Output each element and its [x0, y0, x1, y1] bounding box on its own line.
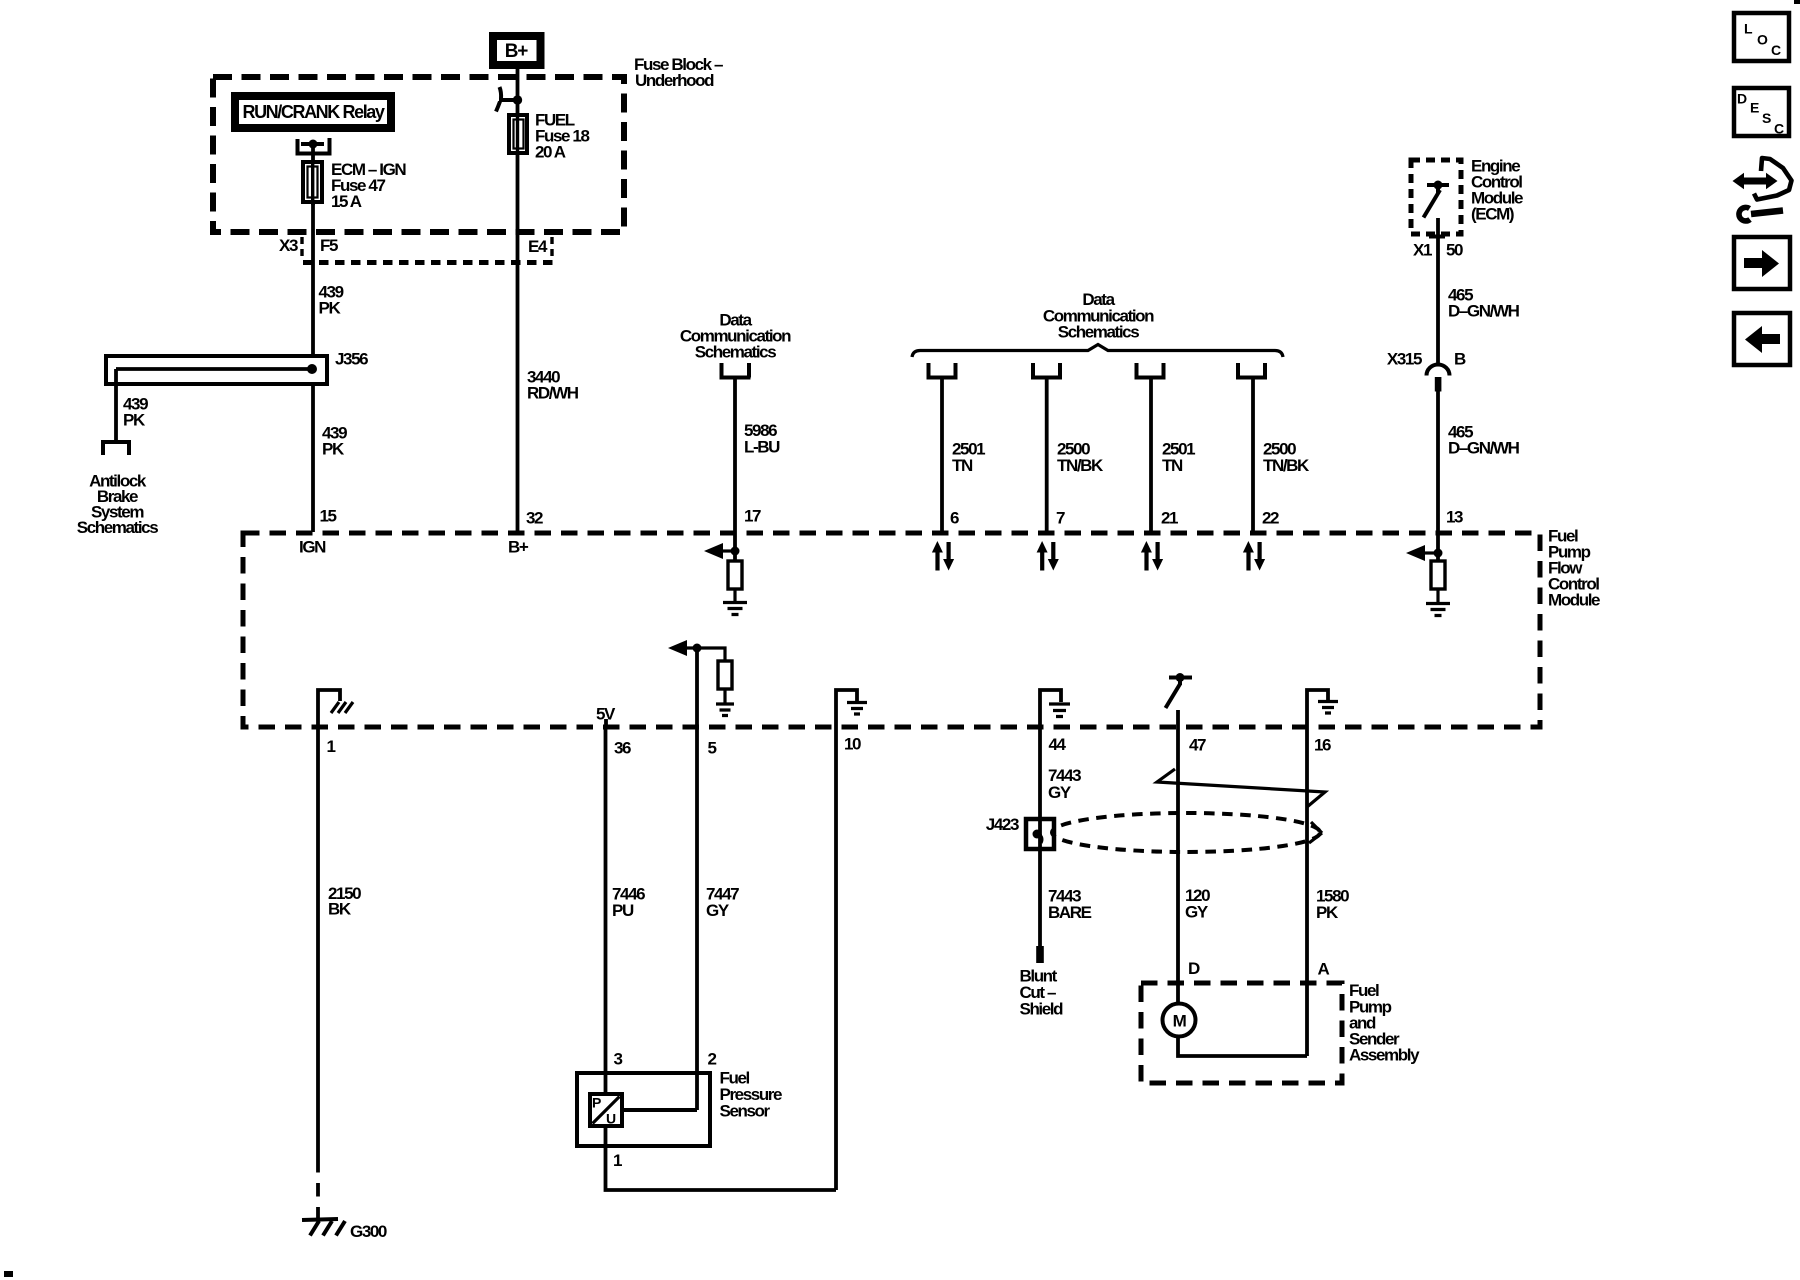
svg-text:TN/BK: TN/BK: [1263, 456, 1310, 475]
svg-text:Schematics: Schematics: [1058, 322, 1139, 341]
svg-text:GY: GY: [1048, 783, 1072, 802]
wire 120 GY from pin 47 to pump pin D: [1178, 727, 1210, 1005]
svg-text:Assembly: Assembly: [1349, 1046, 1420, 1065]
svg-text:15: 15: [320, 507, 337, 526]
title Data Communication Schematics (right): [1043, 290, 1154, 342]
internal termination resistor at pin 17: [704, 532, 747, 615]
svg-text:Schematics: Schematics: [695, 342, 776, 361]
svg-text:(ECM): (ECM): [1471, 204, 1514, 223]
splice pack J356: [106, 350, 368, 385]
svg-text:TN: TN: [952, 456, 973, 475]
svg-text:47: 47: [1189, 735, 1206, 754]
svg-text:32: 32: [526, 509, 543, 528]
svg-text:E: E: [1750, 100, 1759, 116]
icon forward arrow button: [1734, 237, 1790, 289]
svg-text:10: 10: [844, 734, 861, 753]
B+ power feed box: [493, 36, 541, 65]
module internal ground pin 16: [1307, 690, 1338, 754]
off-page fork wire 2500 pin 22: [1236, 363, 1310, 532]
wire sensor pin 1 return to pin 10: [606, 727, 837, 1190]
in-line connector X315 pin B: [1387, 349, 1466, 391]
svg-text:20 A: 20 A: [535, 143, 566, 162]
module internal ground pin 44: [1040, 690, 1070, 754]
svg-text:B+: B+: [505, 41, 529, 62]
svg-text:L-BU: L-BU: [744, 437, 780, 456]
svg-text:RUN/CRANK Relay: RUN/CRANK Relay: [242, 102, 384, 122]
wire 439 PK from fuse 47 to X3 connector: [311, 202, 315, 356]
ECM connector X1 pin 50: [1413, 218, 1463, 366]
icon back arrow button: [1734, 313, 1790, 365]
svg-text:M: M: [1173, 1012, 1187, 1031]
svg-text:B: B: [1454, 349, 1466, 368]
connector row X3 / F5 / E4: [279, 236, 553, 263]
wire 439 PK from J356 to module pin 15: [299, 384, 347, 557]
wire 439 PK branch to ABS: [116, 369, 148, 441]
svg-text:Module: Module: [1548, 590, 1600, 609]
wire B+ from battery to fuse 18: [516, 69, 520, 115]
fuel pressure sensor box: [577, 1068, 782, 1146]
svg-text:A: A: [1318, 959, 1330, 978]
brace over data communication wires: [912, 345, 1283, 358]
svg-text:16: 16: [1314, 735, 1331, 754]
svg-text:J356: J356: [335, 350, 368, 369]
svg-text:L: L: [1744, 21, 1753, 37]
serial data arrows pin 7: [1037, 541, 1059, 571]
svg-text:TN/BK: TN/BK: [1057, 456, 1104, 475]
fuse F47 ECM-IGN 15A: [303, 160, 406, 211]
engine control module ECM dashed box: [1411, 156, 1523, 234]
svg-text:Underhood: Underhood: [635, 71, 714, 90]
internal termination resistor at pin 13: [1406, 532, 1450, 616]
wire 2150 BK from pin 1 to G300: [318, 727, 361, 1220]
off-page fork wire 2501 pin 6: [927, 363, 986, 532]
twisted leads symbol: [1157, 769, 1325, 807]
svg-text:PK: PK: [322, 440, 345, 459]
off-page fork to data communication (wire 5986): [720, 363, 751, 378]
svg-text:C: C: [1771, 42, 1781, 58]
svg-text:13: 13: [1446, 508, 1463, 527]
svg-text:1: 1: [327, 737, 336, 756]
svg-text:BARE: BARE: [1048, 903, 1092, 922]
wire 7446 PU from pin 36 to sensor pin 3: [606, 727, 646, 1094]
off-page fork wire 2500 pin 7: [1031, 363, 1104, 532]
splice J423: [986, 815, 1054, 849]
serial data arrows pin 22: [1243, 541, 1265, 571]
serial data arrows pin 21: [1141, 541, 1163, 571]
svg-text:BK: BK: [328, 900, 352, 919]
svg-text:22: 22: [1262, 508, 1279, 527]
fuel pump and sender assembly dashed box: [1141, 981, 1420, 1083]
wire 439 PK label above J356: [319, 283, 344, 318]
off-page fork to Antilock Brake System Schematics: [77, 442, 158, 537]
svg-text:50: 50: [1446, 240, 1463, 259]
svg-text:B+: B+: [508, 538, 529, 557]
svg-text:PK: PK: [123, 411, 146, 430]
svg-text:J423: J423: [986, 815, 1019, 834]
svg-text:D: D: [1188, 959, 1200, 978]
module internal 5V supply pin 36: [596, 704, 631, 757]
svg-text:X315: X315: [1387, 349, 1422, 368]
fuel pump motor M: [1163, 1004, 1308, 1057]
svg-text:U: U: [606, 1111, 616, 1127]
icon DESC button: [1734, 88, 1789, 137]
svg-text:P: P: [592, 1095, 601, 1111]
serial data arrows pin 6: [932, 541, 954, 571]
svg-text:F5: F5: [320, 236, 338, 255]
svg-text:PK: PK: [319, 299, 342, 318]
relay output terminal bracket: [296, 138, 332, 162]
wire 3440 RD/WH from fuse 18 to module pin 32: [508, 153, 579, 557]
fuse F18 FUEL 20A: [509, 111, 589, 162]
svg-text:Schematics: Schematics: [77, 518, 158, 537]
wire 465 D-GN/WH to module pin 13: [1438, 391, 1520, 532]
wire 7447 GY from pin 5 to sensor pin 2: [697, 727, 739, 1110]
svg-text:PK: PK: [1316, 903, 1339, 922]
svg-text:G300: G300: [350, 1222, 387, 1241]
svg-text:36: 36: [614, 738, 631, 757]
svg-text:D–GN/WH: D–GN/WH: [1448, 301, 1520, 320]
svg-text:3: 3: [614, 1049, 623, 1068]
wire 1580 PK from pin 16 to pump pin A: [1307, 727, 1349, 1056]
svg-text:TN: TN: [1162, 456, 1183, 475]
ground G300: [302, 1219, 387, 1241]
icon LOC button: [1734, 13, 1789, 61]
svg-text:S: S: [1762, 110, 1771, 126]
ECM internal driver switch: [1424, 181, 1450, 218]
fuse block underhood dashed box: [213, 55, 723, 232]
svg-text:O: O: [1757, 32, 1768, 48]
svg-text:1: 1: [613, 1151, 622, 1170]
svg-text:Shield: Shield: [1020, 999, 1064, 1018]
module internal pull-up resistor pin 5: [668, 640, 734, 757]
fuel pump flow control module dashed box: [243, 526, 1600, 727]
svg-text:X1: X1: [1413, 240, 1432, 259]
module internal driver switch pin 47: [1166, 673, 1207, 754]
svg-text:GY: GY: [706, 901, 730, 920]
svg-text:5V: 5V: [596, 704, 616, 723]
svg-text:6: 6: [950, 508, 959, 527]
svg-text:PU: PU: [612, 901, 634, 920]
sensor P/U transducer element: [590, 1094, 697, 1127]
module internal chassis ground pin 1: [318, 690, 353, 756]
svg-text:Sensor: Sensor: [720, 1101, 771, 1120]
off-page fork wire 2501 pin 21: [1135, 363, 1196, 532]
svg-text:15 A: 15 A: [331, 192, 362, 211]
wire 7443 BARE to blunt cut: [1020, 834, 1092, 1018]
svg-text:C: C: [1774, 121, 1784, 137]
icon wrench and arrow: [1733, 158, 1792, 221]
svg-text:21: 21: [1161, 508, 1178, 527]
module internal ground pin 10: [836, 690, 867, 753]
wire 465 D-GN/WH upper label: [1448, 285, 1520, 320]
svg-text:GY: GY: [1185, 902, 1209, 921]
title Data Communication Schematics (left): [680, 310, 791, 361]
wire 7443 GY from pin 44 to splice J423: [1040, 727, 1081, 835]
svg-text:D: D: [1737, 91, 1747, 107]
svg-text:E4: E4: [528, 237, 548, 256]
internal crimp splice on B+ feed: [496, 87, 522, 112]
svg-text:2: 2: [708, 1049, 717, 1068]
svg-text:X3: X3: [279, 236, 298, 255]
svg-text:17: 17: [744, 506, 761, 525]
RUN/CRANK Relay box: [235, 96, 391, 128]
svg-text:D–GN/WH: D–GN/WH: [1448, 438, 1520, 457]
svg-text:7: 7: [1056, 508, 1065, 527]
svg-text:RD/WH: RD/WH: [527, 384, 579, 403]
shield dashed ellipse: [1052, 813, 1322, 852]
wire 5986 L-BU to module pin 17: [735, 378, 780, 533]
svg-text:44: 44: [1049, 735, 1067, 754]
svg-text:5: 5: [708, 738, 717, 757]
svg-text:IGN: IGN: [299, 538, 326, 557]
